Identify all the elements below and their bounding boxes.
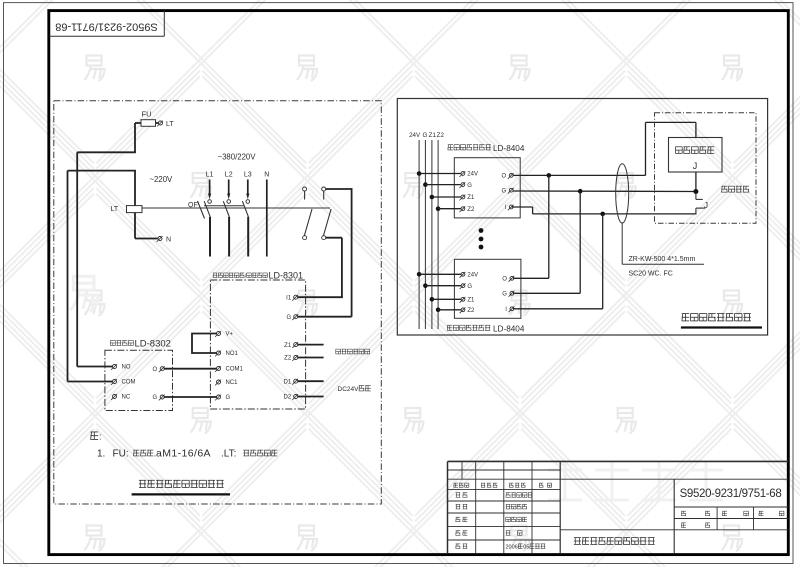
- svg-text:V+: V+: [226, 332, 234, 338]
- svg-text:24V: 24V: [409, 132, 421, 139]
- svg-text:LD-8404: LD-8404: [493, 144, 525, 153]
- svg-text:SC20 WC. FC: SC20 WC. FC: [629, 271, 673, 278]
- svg-text:DC24V: DC24V: [338, 386, 360, 393]
- svg-text:FU: FU: [142, 110, 152, 119]
- svg-text:S9502-9231/9711-68: S9502-9231/9711-68: [55, 21, 158, 33]
- svg-text:G: G: [502, 292, 507, 298]
- svg-text:LT: LT: [166, 121, 174, 128]
- svg-text:2006: 2006: [506, 545, 518, 551]
- svg-text:G: G: [226, 395, 231, 401]
- svg-text:G: G: [287, 315, 292, 321]
- svg-text:aM1-16/6A: aM1-16/6A: [156, 448, 211, 460]
- svg-text:N: N: [264, 172, 269, 179]
- svg-text:NO1: NO1: [226, 351, 239, 357]
- svg-text:D1: D1: [284, 379, 292, 385]
- svg-text:24V: 24V: [467, 273, 478, 279]
- svg-text:J: J: [704, 201, 708, 210]
- svg-text:NC: NC: [122, 395, 131, 401]
- svg-text:Z2: Z2: [467, 207, 475, 213]
- svg-text:24V: 24V: [467, 172, 478, 178]
- svg-text:LD-8301: LD-8301: [269, 271, 304, 281]
- svg-text:N: N: [166, 236, 171, 243]
- svg-text:O: O: [502, 277, 507, 283]
- svg-text:QF: QF: [188, 202, 198, 209]
- svg-text:Z1: Z1: [467, 195, 475, 201]
- svg-text::: :: [99, 432, 102, 442]
- svg-text:Z2: Z2: [284, 356, 292, 362]
- svg-text:05: 05: [523, 545, 529, 551]
- svg-text:Z1: Z1: [284, 343, 292, 349]
- svg-text:L2: L2: [225, 172, 233, 179]
- svg-text:G: G: [467, 284, 472, 290]
- svg-text:COM1: COM1: [226, 367, 244, 373]
- svg-text:Z2: Z2: [467, 308, 475, 314]
- svg-text:Z1: Z1: [467, 298, 475, 304]
- svg-text:FU:: FU:: [113, 449, 129, 460]
- svg-text:ZR-KW-500 4*1.5mm: ZR-KW-500 4*1.5mm: [629, 256, 696, 263]
- svg-text:G: G: [422, 132, 427, 139]
- svg-text:L3: L3: [244, 172, 252, 179]
- svg-text:1.: 1.: [97, 449, 105, 460]
- svg-text:I1: I1: [286, 295, 292, 301]
- svg-text:Z2: Z2: [437, 132, 445, 139]
- svg-text:S9520-9231/9751-68: S9520-9231/9751-68: [680, 488, 782, 500]
- svg-text:G: G: [153, 395, 158, 401]
- svg-text:.LT:: .LT:: [221, 449, 236, 460]
- svg-text:NC1: NC1: [226, 380, 239, 386]
- svg-text:LD-8404: LD-8404: [493, 325, 525, 334]
- svg-text:D2: D2: [284, 395, 292, 401]
- svg-text:O: O: [502, 174, 507, 180]
- svg-text:G: G: [467, 183, 472, 189]
- svg-text:NO: NO: [122, 365, 131, 371]
- svg-text:LT: LT: [111, 206, 119, 213]
- svg-text:~220V: ~220V: [150, 175, 174, 184]
- svg-text:J: J: [693, 161, 698, 171]
- svg-text:O: O: [153, 367, 158, 373]
- svg-text:LD-8302: LD-8302: [135, 339, 171, 350]
- svg-text:Z1: Z1: [429, 132, 437, 139]
- svg-text:L1: L1: [206, 172, 214, 179]
- svg-text:G: G: [502, 188, 507, 194]
- svg-text:~380/220V: ~380/220V: [218, 153, 257, 162]
- svg-text:COM: COM: [122, 380, 136, 386]
